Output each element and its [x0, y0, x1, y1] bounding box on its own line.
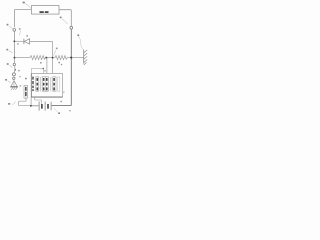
wire to resistor R1 [15, 57, 30, 59]
control unit box U1 [32, 6, 60, 15]
points arm [14, 66, 17, 70]
faint label bottom right [69, 110, 71, 111]
winding W3 rect [53, 77, 56, 91]
W2 divider [44, 77, 46, 91]
battery wire left [32, 105, 39, 107]
battery plate tall 2 [44, 102, 46, 111]
leader 3 curvy [79, 37, 84, 50]
wire circle to node [13, 31, 15, 40]
diode D1 cathode bar [23, 39, 25, 44]
battery plate thick 2 [47, 104, 49, 109]
tick label right of box bottom [63, 92, 64, 93]
switch terminal circle [13, 29, 16, 32]
label 6 [17, 43, 19, 44]
label above condenser [25, 78, 27, 80]
wire node-left down to points [13, 59, 15, 64]
wire A to B [47, 57, 52, 59]
main vertical lower to battery wire [52, 59, 72, 106]
points contact dot [14, 69, 16, 71]
leader P [53, 50, 56, 56]
resistor R2 [53, 56, 70, 60]
label N left [6, 49, 8, 51]
battery node dot [30, 105, 32, 107]
W3 segments [53, 78, 55, 81]
winding W2 double rect [42, 77, 48, 91]
ignition coil box [31, 74, 62, 98]
label 3 [77, 34, 79, 36]
terminal circle on main vertical [70, 26, 73, 29]
ground hatches [11, 87, 17, 90]
battery plate thick 1 [41, 104, 43, 109]
wire B down to coil box [52, 59, 54, 74]
winding bar on left edge [32, 77, 33, 80]
arm lower [13, 71, 16, 73]
label under battery [58, 112, 60, 114]
W1 core segments [37, 78, 39, 81]
leader [62, 19, 68, 24]
battery plate tall 1 [38, 102, 40, 111]
label 4 bottom left [8, 103, 10, 105]
leader N [9, 51, 13, 53]
winding W1 rect [36, 77, 39, 91]
label C under R1 [40, 62, 42, 64]
battery plate tall 3 [50, 102, 52, 110]
leader curve [19, 30, 20, 35]
spark electrode circle [13, 77, 15, 79]
label 2 [7, 63, 9, 65]
points terminal circle 2 [12, 73, 15, 76]
main vertical upper [70, 29, 72, 56]
node main-left [14, 57, 16, 59]
box text label [40, 11, 44, 13]
wire box-right to main vertical [59, 10, 71, 27]
branch wire y68 [31, 67, 43, 69]
node B [52, 57, 54, 59]
diode D1 triangle [24, 39, 29, 44]
condenser inner bar [25, 87, 27, 91]
wire A down to coil box [46, 59, 48, 74]
diode branch wire to corner and down [30, 41, 53, 56]
node on branch [43, 68, 45, 70]
tick label near box top [44, 70, 45, 71]
label under R2 [58, 62, 60, 64]
points terminal circle 1 [13, 63, 15, 65]
leader [8, 81, 11, 83]
label right of plug [19, 76, 20, 77]
core line 1 [40, 77, 42, 91]
label above diode [26, 35, 28, 36]
label under battery leader [54, 108, 58, 112]
node D1-anode [13, 40, 15, 42]
winding lead line [57, 77, 59, 91]
label P near B [56, 48, 58, 50]
chassis wall line [83, 50, 85, 64]
condenser narrow box [24, 85, 28, 98]
resistor R1 [30, 56, 45, 60]
node C [70, 57, 72, 59]
wire box-left to corner [14, 10, 31, 28]
tick label box top right [61, 64, 62, 65]
label right of ground [20, 85, 22, 86]
label 5 right of circle [19, 28, 21, 30]
chassis hatches [84, 50, 88, 65]
wire down to box [42, 69, 44, 74]
condenser to battery Z-wire [19, 98, 30, 106]
vertical into box left [30, 68, 32, 73]
label below box right [60, 101, 62, 102]
label 1 right [18, 70, 20, 71]
triangle center line [13, 81, 15, 87]
core line 2 [50, 77, 52, 91]
label F [7, 24, 9, 26]
leader to box [25, 4, 31, 8]
label 5 top-right [60, 17, 62, 19]
wire C to chassis [72, 57, 84, 59]
spark plug triangle [11, 81, 17, 87]
ground bar [10, 86, 18, 88]
W2 segments [43, 78, 45, 81]
leader 4 [12, 102, 15, 105]
stub below box [35, 97, 42, 104]
diode D1 wire [15, 40, 24, 42]
label left of plug [5, 79, 7, 81]
box left edge to battery wire [30, 97, 32, 105]
label 7 (top left) [23, 2, 25, 4]
node A [45, 57, 47, 59]
wire node41 to node57 [13, 42, 15, 56]
leader 2 [9, 65, 12, 67]
leader F [9, 26, 13, 29]
